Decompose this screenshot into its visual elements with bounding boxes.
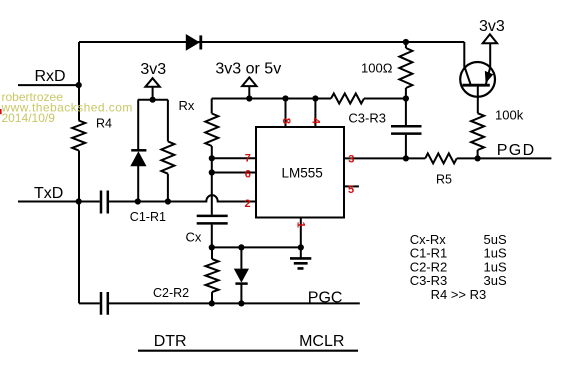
wire pin5 stub <box>344 185 359 187</box>
wire diode branch upper <box>137 100 139 151</box>
svg-text:3v3 or 5v: 3v3 or 5v <box>215 61 281 78</box>
wire pin4 stub <box>314 99 316 128</box>
wire pin7 stub <box>212 157 256 159</box>
diode D2 (down) <box>234 269 249 284</box>
svg-text:Rx: Rx <box>179 98 195 113</box>
wire PGC line left + C2 <box>79 302 100 304</box>
svg-text:R4 >> R3: R4 >> R3 <box>431 287 487 302</box>
wire pin1 down to gnd node <box>300 218 302 259</box>
resistor R5 <box>425 153 457 163</box>
transistor Q1 <box>460 62 495 97</box>
wire left vertical bus <box>78 42 80 303</box>
wire transistor emitter <box>486 44 490 85</box>
svg-text:DTR: DTR <box>154 333 187 350</box>
resistor 100ohm <box>399 42 412 125</box>
wire RxD stub <box>18 84 79 86</box>
svg-text:RxD: RxD <box>35 68 66 85</box>
wire power stub mid <box>248 87 250 99</box>
svg-text:5: 5 <box>348 184 354 196</box>
capacitor C3 <box>391 126 422 133</box>
svg-text:1: 1 <box>294 222 306 228</box>
wire gnd horizontal <box>212 246 301 248</box>
wire transistor base lead <box>477 87 479 114</box>
wire top rail RxD-to-transistor <box>79 41 464 43</box>
wire pin6 stub <box>212 172 256 174</box>
svg-text:MCLR: MCLR <box>299 333 344 350</box>
svg-text:3: 3 <box>348 154 354 166</box>
wire 3v3 tee bar <box>138 87 168 100</box>
ground <box>290 258 311 268</box>
svg-text:C1-R1: C1-R1 <box>410 245 448 260</box>
svg-text:R4: R4 <box>96 116 112 130</box>
power symbol 3v3 top right <box>483 34 497 43</box>
svg-text:100k: 100k <box>495 108 524 123</box>
svg-text:1uS: 1uS <box>484 245 507 260</box>
svg-text:R5: R5 <box>436 173 452 187</box>
wire diode D2 leads <box>240 247 242 303</box>
resistor C3-R3 <box>331 94 364 104</box>
svg-text:LM555: LM555 <box>282 166 323 181</box>
red edge mark <box>0 109 2 114</box>
svg-text:7: 7 <box>245 152 251 164</box>
wire TxD to C1 <box>18 201 100 203</box>
capacitor Cx <box>197 216 228 224</box>
resistor R1 <box>161 100 174 202</box>
svg-text:6: 6 <box>245 168 251 180</box>
diode D3 top rail <box>186 34 201 51</box>
svg-text:C3-R3: C3-R3 <box>410 273 448 288</box>
diode D1 (up) <box>130 150 146 166</box>
power symbol 3v3or5v <box>242 77 256 86</box>
resistor R4 <box>72 121 85 151</box>
underline DTR/MCLR <box>138 350 358 352</box>
svg-text:Cx: Cx <box>186 230 202 245</box>
wire C1 to pin2 with hop over vertical <box>109 195 256 201</box>
wire Rx bottom to Cx <box>211 146 213 215</box>
resistor R2 <box>206 247 219 303</box>
capacitor C2 <box>101 292 108 315</box>
svg-text:C2-R2: C2-R2 <box>153 286 189 300</box>
svg-text:PGC: PGC <box>308 290 343 307</box>
svg-text:2: 2 <box>245 198 251 210</box>
wire Cx bottom lead <box>211 225 213 248</box>
svg-text:3v3: 3v3 <box>479 18 505 35</box>
wire pin8 stub <box>285 99 287 128</box>
svg-text:8: 8 <box>280 118 292 124</box>
transistor Q1 emitter arrow <box>486 72 493 82</box>
svg-text:4: 4 <box>310 118 322 125</box>
svg-text:TxD: TxD <box>34 185 63 202</box>
wire diode branch lower <box>137 166 139 202</box>
wire pin3 to R5 <box>344 157 425 159</box>
svg-text:C1-R1: C1-R1 <box>130 210 166 224</box>
svg-text:3uS: 3uS <box>484 273 507 288</box>
svg-text:PGD: PGD <box>497 142 536 159</box>
wire C3 bottom lead <box>405 135 407 159</box>
svg-text:2014/10/9: 2014/10/9 <box>2 111 56 125</box>
capacitor C1 <box>101 191 108 214</box>
wire 3v3or5v rail <box>212 98 406 100</box>
svg-text:100Ω: 100Ω <box>361 61 393 76</box>
svg-text:3v3: 3v3 <box>140 61 166 78</box>
resistor 100k <box>471 113 484 158</box>
wire R5 to PGD end <box>457 157 552 159</box>
wire transistor collector <box>464 42 470 84</box>
resistor Rx <box>205 99 218 147</box>
wire PGC line <box>109 302 360 304</box>
power symbol 3v3 left <box>145 78 159 87</box>
IC U1 LM555 <box>256 127 344 218</box>
svg-text:C3-R3: C3-R3 <box>348 110 386 125</box>
